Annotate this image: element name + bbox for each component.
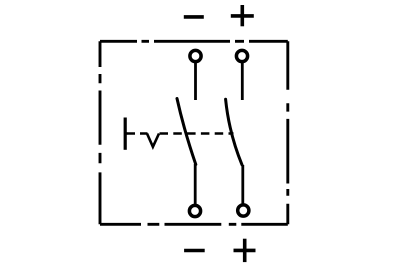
label top plus (+) xyxy=(231,5,254,26)
actuator bar (manual operator) xyxy=(124,118,127,150)
wire: bottom stem pole 1 xyxy=(194,164,197,205)
wire: top stem pole 2 xyxy=(241,63,244,101)
label bottom minus (−) xyxy=(184,249,205,252)
label bottom plus (+) xyxy=(234,239,256,262)
terminal bottom-right (+) xyxy=(238,205,249,216)
enclosure outline: left edge (dash-dot) xyxy=(99,41,102,224)
switch blade pole 2 xyxy=(226,99,242,165)
wire: top stem pole 1 xyxy=(194,63,197,101)
wire: bottom stem pole 2 xyxy=(241,165,244,204)
terminal top-left (−) xyxy=(190,50,201,61)
mechanical linkage dashed line, right segment xyxy=(160,132,234,135)
enclosure outline: top edge (dash-dot) xyxy=(100,40,288,43)
enclosure outline: bottom edge (dash-dot) xyxy=(100,223,288,226)
mechanical linkage dashed line, left segment xyxy=(127,132,148,135)
terminal top-right (+) xyxy=(236,50,247,61)
terminal bottom-left (−) xyxy=(189,205,200,216)
enclosure outline: right edge (dash-dot) xyxy=(286,41,289,224)
switch blade pole 1 xyxy=(177,99,196,165)
latching notch (V) xyxy=(147,134,159,147)
label top minus (−) xyxy=(184,15,204,19)
